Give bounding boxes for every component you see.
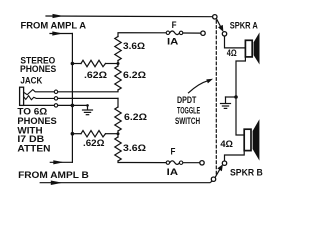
svg-text:3.6Ω: 3.6Ω: [123, 41, 145, 51]
svg-text:FROM AMPL A: FROM AMPL A: [21, 21, 87, 31]
svg-text:4Ω: 4Ω: [220, 139, 233, 149]
svg-text:F: F: [171, 146, 176, 156]
svg-text:SWITCH: SWITCH: [175, 116, 200, 126]
svg-text:6.2Ω: 6.2Ω: [124, 112, 147, 122]
svg-text:ATTEN: ATTEN: [17, 144, 50, 154]
svg-text:3.6Ω: 3.6Ω: [123, 143, 146, 153]
svg-text:4Ω: 4Ω: [227, 48, 237, 58]
svg-text:SPKR A: SPKR A: [230, 21, 259, 31]
svg-text:6.2Ω: 6.2Ω: [123, 70, 146, 80]
svg-text:JACK: JACK: [20, 75, 42, 85]
svg-text:FROM AMPL B: FROM AMPL B: [18, 170, 89, 180]
svg-text:PHONES: PHONES: [20, 64, 56, 74]
svg-text:SPKR B: SPKR B: [230, 167, 263, 177]
svg-text:F: F: [172, 20, 177, 30]
svg-text:IA: IA: [167, 167, 179, 177]
svg-text:.62Ω: .62Ω: [83, 138, 105, 148]
svg-text:TOGGLE: TOGGLE: [177, 106, 200, 116]
svg-text:DPDT: DPDT: [177, 95, 197, 105]
svg-text:TO 6Ω: TO 6Ω: [17, 106, 47, 116]
svg-text:.62Ω: .62Ω: [84, 70, 107, 80]
svg-text:IA: IA: [167, 36, 179, 46]
